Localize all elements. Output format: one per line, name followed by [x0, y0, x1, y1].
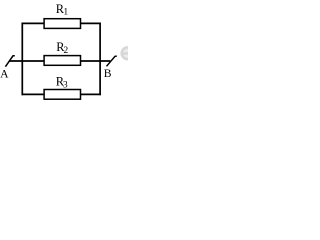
watermark — [122, 47, 134, 59]
wire branch3 right — [80, 93, 101, 95]
svg-text:2: 2 — [64, 46, 69, 56]
resistor R3 — [44, 90, 80, 100]
svg-text:3: 3 — [63, 80, 68, 90]
right bus wire — [99, 23, 101, 96]
terminal tick B — [107, 56, 117, 66]
wire branch2 from A — [9, 60, 44, 62]
left bus wire — [21, 23, 23, 96]
wire branch1 left — [22, 22, 45, 24]
svg-text:B: B — [104, 67, 112, 80]
wire branch1 right — [80, 22, 101, 24]
terminal tick A — [5, 56, 14, 67]
wire branch2 to B — [80, 60, 110, 62]
wire branch3 left — [22, 93, 45, 95]
svg-text:1: 1 — [63, 6, 68, 17]
svg-text:A: A — [0, 68, 9, 81]
resistor R2 — [44, 56, 80, 66]
resistor R1 — [44, 19, 80, 29]
